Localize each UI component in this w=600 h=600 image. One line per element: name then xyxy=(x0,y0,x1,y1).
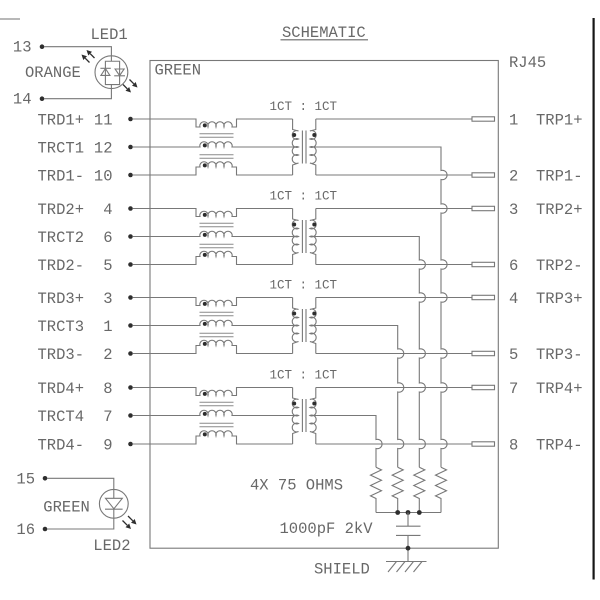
pin 13 dot xyxy=(40,44,45,49)
svg-text:5: 5 xyxy=(509,346,518,364)
choke T1 winding 1 (top) xyxy=(150,119,293,127)
wire capacitor to shield xyxy=(407,535,409,561)
svg-text:TRD3+: TRD3+ xyxy=(37,290,84,308)
frame right border xyxy=(592,18,594,580)
choke T2 core lines lower xyxy=(200,243,234,245)
wire TRCT4 to box xyxy=(133,415,150,417)
LED1 diode A cathode bar xyxy=(100,67,110,69)
wire pin14 to LED1 xyxy=(44,89,111,99)
wire T4 center tap to bus xyxy=(310,416,382,468)
svg-text:TRD2-: TRD2- xyxy=(37,257,84,275)
transformer T3 secondary dot xyxy=(312,312,316,316)
pin 15 dot xyxy=(43,476,48,481)
resistor R4 75 ohms xyxy=(436,467,447,512)
choke T4 winding 2 (center) xyxy=(150,410,299,415)
svg-text:8: 8 xyxy=(509,436,518,454)
choke T1 winding 3 dot xyxy=(203,163,207,167)
capacitor C1 bottom plate xyxy=(396,534,421,536)
svg-text:TRP2-: TRP2- xyxy=(536,257,583,275)
pin dot TRCT4 xyxy=(128,413,133,418)
svg-text:1000pF 2kV: 1000pF 2kV xyxy=(280,520,374,538)
LED2 wire to cathode xyxy=(113,509,115,518)
choke T4 core lines upper xyxy=(200,401,234,403)
svg-text:LED1: LED1 xyxy=(91,26,128,44)
svg-text:GREEN: GREEN xyxy=(43,499,90,517)
svg-text:14: 14 xyxy=(13,91,32,109)
svg-text:TRP4+: TRP4+ xyxy=(536,380,583,398)
transformer T4 secondary winding xyxy=(310,388,316,445)
terminal pin 8 xyxy=(472,442,495,446)
pin 14 dot xyxy=(40,96,45,101)
svg-text:15: 15 xyxy=(16,470,35,488)
choke T3 core lines upper xyxy=(200,311,234,313)
transformer T1 secondary winding xyxy=(310,119,316,175)
LED1 inner loop xyxy=(105,56,119,89)
shield chassis ground xyxy=(386,561,427,563)
wire T2 secondary top to pin 3 xyxy=(316,208,472,210)
svg-text:SHIELD: SHIELD xyxy=(314,560,370,578)
choke T2 winding 1 dot xyxy=(203,213,207,217)
wire TRCT1 to box xyxy=(133,146,150,148)
svg-text:TRP2+: TRP2+ xyxy=(536,201,583,219)
pin dot TRD4- xyxy=(128,442,133,447)
pin dot TRD1+ xyxy=(128,117,133,122)
choke T4 winding 1 (top) xyxy=(150,388,293,396)
choke T2 winding 2 dot xyxy=(203,233,207,237)
svg-text:1CT : 1CT: 1CT : 1CT xyxy=(270,279,338,293)
svg-text:2: 2 xyxy=(509,167,518,185)
choke T3 winding 1 dot xyxy=(203,302,207,306)
module box xyxy=(150,61,498,549)
pin dot TRD2- xyxy=(128,262,133,267)
choke T4 winding 1 dot xyxy=(203,392,207,396)
transformer T3 primary winding xyxy=(292,298,298,354)
svg-text:1CT : 1CT: 1CT : 1CT xyxy=(270,369,338,383)
choke T1 core lines upper xyxy=(200,133,234,135)
choke T3 winding 1 (top) xyxy=(150,298,293,306)
wire T1 secondary bottom to pin 2 xyxy=(316,174,472,176)
choke T2 winding 3 dot xyxy=(203,253,207,257)
svg-text:3: 3 xyxy=(509,201,518,219)
wire T4 secondary top to pin 7 xyxy=(316,387,472,389)
choke T2 core lines upper xyxy=(200,222,234,224)
pin dot TRD3+ xyxy=(128,295,133,300)
transformer T2 core xyxy=(301,220,303,253)
svg-text:4: 4 xyxy=(103,201,112,219)
svg-text:TRP3+: TRP3+ xyxy=(536,290,583,308)
transformer T2 primary dot xyxy=(292,223,296,227)
wire T4 secondary bottom to pin 8 xyxy=(316,443,472,445)
choke T3 winding 2 (center) xyxy=(150,320,299,325)
pin dot TRCT1 xyxy=(128,145,133,150)
LED2 circle xyxy=(99,489,128,518)
svg-text:4: 4 xyxy=(509,290,518,308)
wire TRD4+ to box xyxy=(133,387,150,389)
wire TRD3+ to box xyxy=(133,297,150,299)
svg-text:6: 6 xyxy=(509,257,518,275)
svg-text:13: 13 xyxy=(13,39,32,57)
transformer T3 primary dot xyxy=(292,312,296,316)
wire TRCT2 to box xyxy=(133,236,150,238)
transformer T3 secondary winding xyxy=(310,298,316,354)
svg-text:TRD2+: TRD2+ xyxy=(37,201,84,219)
wire TRD1- to box xyxy=(133,174,150,176)
svg-text:4X 75 OHMS: 4X 75 OHMS xyxy=(250,477,343,495)
choke T3 winding 3 dot xyxy=(203,342,207,346)
svg-text:8: 8 xyxy=(103,380,112,398)
svg-text:16: 16 xyxy=(16,521,35,539)
svg-text:11: 11 xyxy=(94,111,113,129)
transformer T1 core xyxy=(301,131,303,164)
svg-text:3: 3 xyxy=(103,290,112,308)
transformer T2 secondary dot xyxy=(312,223,316,227)
svg-text:TRD1-: TRD1- xyxy=(37,167,84,185)
LED2 emission arrows lower-right xyxy=(128,516,133,521)
choke T3 winding 2 dot xyxy=(203,322,207,326)
wire T3 center tap to bus xyxy=(310,326,404,468)
terminal pin 7 xyxy=(472,385,495,389)
choke T4 winding 3 dot xyxy=(203,432,207,436)
wire pin16 to LED2 xyxy=(47,518,114,529)
terminal pin 1 xyxy=(472,117,495,121)
junction dot R2 xyxy=(395,510,400,515)
transformer T4 core xyxy=(301,399,303,432)
svg-text:12: 12 xyxy=(94,139,113,157)
wire bus to capacitor C1 xyxy=(407,513,409,527)
svg-text:TRD1+: TRD1+ xyxy=(37,111,84,129)
choke T4 winding 3 (bottom) xyxy=(150,431,293,444)
wire TRD3- to box xyxy=(133,353,150,355)
pin dot TRD3- xyxy=(128,351,133,356)
wire TRD2- to box xyxy=(133,264,150,266)
pin dot TRCT3 xyxy=(128,323,133,328)
svg-text:7: 7 xyxy=(509,380,518,398)
terminal pin 6 xyxy=(472,262,495,266)
svg-text:1: 1 xyxy=(509,111,518,129)
svg-text:TRP1-: TRP1- xyxy=(536,167,583,185)
pin dot TRD4+ xyxy=(128,385,133,390)
resistor R2 75 ohms xyxy=(392,467,403,512)
transformer T3 core xyxy=(301,309,303,342)
svg-text:TRP1+: TRP1+ xyxy=(536,111,583,129)
choke T1 winding 2 (center) xyxy=(150,142,299,147)
svg-text:TRP4-: TRP4- xyxy=(536,436,583,454)
terminal pin 2 xyxy=(472,173,495,177)
terminal pin 3 xyxy=(472,206,495,210)
frame fragment top-left xyxy=(0,18,20,20)
wire TRD4- to box xyxy=(133,443,150,445)
transformer T2 primary winding xyxy=(292,209,298,265)
wire TRD2+ to box xyxy=(133,208,150,210)
LED2 diode triangle xyxy=(106,489,123,508)
capacitor C1 top plate xyxy=(396,525,421,527)
LED1 diode B triangle xyxy=(115,69,124,76)
wire T2 secondary bottom to pin 6 xyxy=(316,264,472,266)
svg-text:7: 7 xyxy=(103,408,112,426)
svg-text:TRCT1: TRCT1 xyxy=(37,139,84,157)
pin 16 dot xyxy=(43,527,48,532)
svg-text:TRD4-: TRD4- xyxy=(37,436,84,454)
svg-text:RJ45: RJ45 xyxy=(509,54,546,72)
pin dot TRD2+ xyxy=(128,206,133,211)
svg-text:TRP3-: TRP3- xyxy=(536,346,583,364)
transformer T1 primary dot xyxy=(292,133,296,137)
LED1 emission arrows lower-right xyxy=(130,80,134,84)
wire TRCT3 to box xyxy=(133,325,150,327)
transformer T1 secondary dot xyxy=(312,133,316,137)
choke T3 winding 3 (bottom) xyxy=(150,340,293,353)
choke T2 winding 1 (top) xyxy=(150,209,293,217)
LED1 diode A triangle xyxy=(101,69,110,76)
wire T3 secondary bottom to pin 5 xyxy=(316,353,472,355)
choke T2 winding 3 (bottom) xyxy=(150,251,293,264)
transformer T1 primary winding xyxy=(292,119,298,175)
LED1 diode B cathode bar xyxy=(114,75,125,77)
junction dot R3 xyxy=(417,510,422,515)
svg-text:TRCT4: TRCT4 xyxy=(37,408,84,426)
transformer T4 secondary dot xyxy=(312,402,316,406)
svg-text:TRCT3: TRCT3 xyxy=(37,318,84,336)
svg-text:TRD3-: TRD3- xyxy=(37,346,84,364)
svg-text:1CT : 1CT: 1CT : 1CT xyxy=(270,190,338,204)
choke T2 winding 2 (center) xyxy=(150,231,299,236)
wire T1 secondary top to pin 1 xyxy=(316,118,472,120)
svg-text:GREEN: GREEN xyxy=(155,62,202,80)
svg-text:2: 2 xyxy=(103,346,112,364)
choke T1 winding 1 dot xyxy=(203,123,207,127)
svg-text:5: 5 xyxy=(103,257,112,275)
svg-text:TRD4+: TRD4+ xyxy=(37,380,84,398)
choke T1 winding 2 dot xyxy=(203,143,207,147)
svg-text:1: 1 xyxy=(103,318,112,336)
choke T4 winding 2 dot xyxy=(203,412,207,416)
LED1 emission arrows upper-left xyxy=(90,54,94,58)
svg-text:6: 6 xyxy=(103,229,112,247)
transformer T2 secondary winding xyxy=(310,209,316,265)
svg-text:ORANGE: ORANGE xyxy=(25,64,81,82)
terminal pin 4 xyxy=(472,295,495,299)
pin dot TRD1- xyxy=(128,173,133,178)
choke T3 core lines lower xyxy=(200,332,234,334)
wire T3 secondary top to pin 4 xyxy=(316,297,472,299)
svg-text:LED2: LED2 xyxy=(93,537,130,555)
junction bus line (resistor commons) xyxy=(376,512,441,514)
transformer T4 primary dot xyxy=(292,402,296,406)
junction dot cap xyxy=(406,510,411,515)
terminal pin 5 xyxy=(472,351,495,355)
pin dot TRCT2 xyxy=(128,234,133,239)
svg-text:TRCT2: TRCT2 xyxy=(37,229,84,247)
wire pin15 to LED2 xyxy=(47,478,114,489)
junction dot at module box bottom xyxy=(406,546,411,551)
wire pin13 to LED1 xyxy=(44,47,111,56)
LED2 cathode bar xyxy=(105,508,123,510)
svg-text:1CT : 1CT: 1CT : 1CT xyxy=(270,100,338,114)
choke T1 winding 3 (bottom) xyxy=(150,162,293,175)
wire T1 center tap to bus xyxy=(310,147,447,467)
svg-text:9: 9 xyxy=(103,436,112,454)
transformer T4 primary winding xyxy=(292,388,298,445)
resistor R1 75 ohms xyxy=(371,467,382,512)
wire T2 center tap to bus xyxy=(310,237,425,468)
resistor R3 75 ohms xyxy=(414,467,425,512)
choke T1 core lines lower xyxy=(200,154,234,156)
wire TRD1+ to box xyxy=(133,118,150,120)
choke T4 core lines lower xyxy=(200,422,234,424)
LED1 circle xyxy=(95,56,128,89)
svg-text:10: 10 xyxy=(94,167,113,185)
